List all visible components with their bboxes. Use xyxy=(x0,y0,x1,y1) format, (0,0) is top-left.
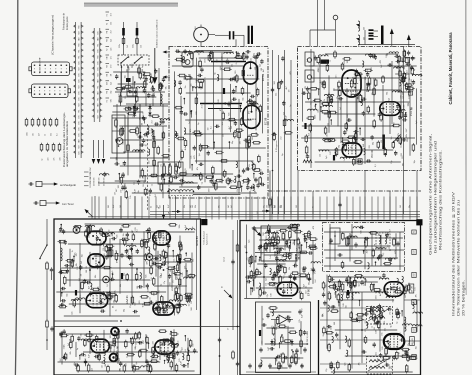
arrow alpha xyxy=(221,286,234,300)
svg-text:8p: 8p xyxy=(214,72,216,74)
svg-text:angaben in Widerständen: angaben in Widerständen xyxy=(66,120,69,167)
svg-text:3p3: 3p3 xyxy=(281,247,283,250)
svg-text:6k8: 6k8 xyxy=(213,130,215,133)
svg-text:2k2: 2k2 xyxy=(155,194,157,197)
svg-text:5p: 5p xyxy=(77,348,79,350)
svg-text:6k8: 6k8 xyxy=(225,102,227,105)
svg-text:8p: 8p xyxy=(85,354,87,356)
svg-text:47k: 47k xyxy=(401,88,403,91)
svg-text:125: 125 xyxy=(330,152,332,155)
svg-text:12k: 12k xyxy=(251,58,253,61)
svg-text:0,47: 0,47 xyxy=(320,58,322,62)
switch S1 (dashed box) xyxy=(118,55,149,65)
coil can L10 xyxy=(182,52,193,68)
svg-text:30p: 30p xyxy=(118,99,120,102)
svg-text:220: 220 xyxy=(365,329,367,332)
svg-text:27p: 27p xyxy=(337,96,339,99)
svg-text:1k: 1k xyxy=(401,146,403,148)
label PCL 86 a xyxy=(117,345,120,354)
svg-text:2n2: 2n2 xyxy=(151,358,153,361)
resistor R102 xyxy=(136,37,143,48)
svg-text:50u: 50u xyxy=(299,246,301,249)
tube PCL86 pentode b upper xyxy=(153,302,174,315)
svg-text:10n: 10n xyxy=(257,65,259,68)
svg-text:100n: 100n xyxy=(105,338,107,342)
boxed label EF183b xyxy=(410,337,415,346)
sound IF box (dash-dot) xyxy=(323,223,405,272)
svg-text:68k: 68k xyxy=(239,169,241,172)
trimmer switch xyxy=(393,135,401,143)
svg-text:EHN: EHN xyxy=(79,127,81,130)
divider wire 2 xyxy=(54,326,240,328)
svg-text:6k8: 6k8 xyxy=(228,205,230,208)
svg-text:27p: 27p xyxy=(255,178,257,181)
svg-text:12k: 12k xyxy=(289,267,291,270)
svg-text:3p3: 3p3 xyxy=(307,238,309,241)
svg-text:12k: 12k xyxy=(191,301,193,304)
filter coil 1 xyxy=(265,232,279,234)
svg-text:1n5: 1n5 xyxy=(151,277,153,280)
note tube sockets line 1 xyxy=(63,13,66,30)
svg-text:2k2: 2k2 xyxy=(60,358,62,361)
svg-text:33p: 33p xyxy=(74,362,76,365)
top mid extra parts xyxy=(113,64,167,103)
svg-text:220: 220 xyxy=(135,227,137,230)
ratio det parts xyxy=(259,307,306,364)
note chassis (rotated) xyxy=(52,15,55,55)
tube socket diagram upper xyxy=(29,62,72,76)
svg-text:190: 190 xyxy=(135,347,137,350)
harness arrow to chassis xyxy=(152,48,157,84)
svg-text:2k2: 2k2 xyxy=(174,338,176,341)
note UHF (rotated) xyxy=(39,57,42,74)
svg-text:8p: 8p xyxy=(299,291,301,293)
svg-text:3p3: 3p3 xyxy=(191,84,193,87)
svg-text:3p3: 3p3 xyxy=(181,347,183,350)
svg-text:47k: 47k xyxy=(281,364,283,367)
svg-text:47k: 47k xyxy=(403,92,405,95)
margin note voltages line 3 xyxy=(439,150,443,250)
svg-text:0,47: 0,47 xyxy=(301,364,303,368)
extra junction dots xyxy=(89,243,363,357)
svg-text:2p5: 2p5 xyxy=(220,66,222,69)
capacitor C40 xyxy=(50,267,53,272)
svg-text:1M: 1M xyxy=(237,76,239,79)
box B bottom interior wires xyxy=(341,47,404,215)
svg-text:3p3: 3p3 xyxy=(378,322,380,325)
svg-text:1k: 1k xyxy=(342,82,344,84)
svg-text:6k8: 6k8 xyxy=(284,360,286,363)
svg-text:8p: 8p xyxy=(328,92,330,94)
svg-text:470: 470 xyxy=(110,65,112,68)
box B extra parts xyxy=(305,49,416,167)
svg-text:68k: 68k xyxy=(102,361,104,364)
svg-text:12k: 12k xyxy=(280,205,282,208)
corner marker box C xyxy=(201,219,207,225)
label PCF 80 b xyxy=(371,149,374,158)
svg-text:EHN: EHN xyxy=(97,49,99,52)
svg-text:2p5: 2p5 xyxy=(272,326,274,329)
svg-text:5p: 5p xyxy=(227,58,229,60)
top scan bar xyxy=(84,3,178,7)
svg-text:4k7: 4k7 xyxy=(174,353,176,356)
svg-text:33p: 33p xyxy=(263,205,265,208)
svg-text:8p: 8p xyxy=(169,343,171,345)
svg-text:560: 560 xyxy=(110,99,112,102)
svg-text:1n5: 1n5 xyxy=(266,283,268,286)
svg-text:3p3: 3p3 xyxy=(388,98,390,101)
svg-text:0,47: 0,47 xyxy=(169,191,171,195)
left page edge line xyxy=(15,0,17,375)
tube socket diagram lower xyxy=(29,84,71,98)
svg-text:30p: 30p xyxy=(372,142,374,145)
svg-text:27p: 27p xyxy=(326,369,328,372)
svg-text:10n: 10n xyxy=(199,52,201,55)
svg-text:190: 190 xyxy=(143,90,145,93)
svg-text:0,47: 0,47 xyxy=(72,262,74,266)
svg-text:100n: 100n xyxy=(132,64,134,68)
svg-text:8p: 8p xyxy=(233,180,235,182)
svg-text:1k: 1k xyxy=(313,206,315,208)
svg-text:1n5: 1n5 xyxy=(153,355,155,358)
svg-text:220: 220 xyxy=(114,349,116,352)
harness horizontal wires xyxy=(88,212,420,217)
svg-text:0,1: 0,1 xyxy=(137,229,139,232)
svg-text:5p: 5p xyxy=(142,66,144,68)
svg-text:1M: 1M xyxy=(81,273,83,276)
svg-text:22k: 22k xyxy=(335,292,337,295)
svg-text:125: 125 xyxy=(160,164,162,167)
svg-text:190: 190 xyxy=(235,71,237,74)
svg-text:2n2: 2n2 xyxy=(63,346,65,349)
svg-text:1n5: 1n5 xyxy=(154,310,156,313)
svg-text:30p: 30p xyxy=(232,141,234,144)
svg-text:2p5: 2p5 xyxy=(248,240,250,243)
svg-text:3p3: 3p3 xyxy=(283,112,285,115)
svg-text:125: 125 xyxy=(257,90,259,93)
resistor R4 xyxy=(127,143,130,152)
tube EC88 V2 xyxy=(243,105,260,128)
tube PCF80 b xyxy=(342,143,362,157)
svg-text:K2: K2 xyxy=(107,100,109,102)
svg-text:220: 220 xyxy=(196,112,198,115)
svg-text:6k8: 6k8 xyxy=(361,231,363,234)
svg-text:2n2: 2n2 xyxy=(189,121,191,124)
svg-text:33p: 33p xyxy=(315,99,317,102)
ratio detector box xyxy=(256,302,311,373)
svg-text:27p: 27p xyxy=(299,319,301,322)
svg-text:2n2: 2n2 xyxy=(155,141,157,144)
svg-text:68k: 68k xyxy=(76,263,78,266)
wire xyxy=(47,271,52,320)
label 91 xyxy=(113,305,115,308)
svg-text:220: 220 xyxy=(371,67,373,70)
box D right extra parts xyxy=(322,273,417,374)
svg-text:30p: 30p xyxy=(256,108,258,111)
svg-text:2k2: 2k2 xyxy=(144,302,146,305)
svg-text:4k7: 4k7 xyxy=(367,250,369,253)
svg-text:470: 470 xyxy=(301,309,303,312)
label filter xyxy=(299,245,301,259)
svg-text:2n2: 2n2 xyxy=(181,248,183,251)
svg-text:100n: 100n xyxy=(166,310,168,314)
svg-text:EDN: EDN xyxy=(79,61,81,64)
svg-text:2k2: 2k2 xyxy=(311,268,313,271)
svg-text:2n2: 2n2 xyxy=(110,30,112,33)
svg-text:68k: 68k xyxy=(352,77,354,80)
svg-text:190: 190 xyxy=(125,183,127,186)
diode D1 xyxy=(133,104,136,111)
svg-text:47k: 47k xyxy=(190,129,192,132)
svg-text:3p3: 3p3 xyxy=(157,205,159,208)
svg-text:0,1: 0,1 xyxy=(107,284,109,287)
svg-text:3p3: 3p3 xyxy=(231,100,233,103)
margin note voltages line 1 xyxy=(429,134,433,255)
label ratio det xyxy=(307,331,309,345)
svg-text:47k: 47k xyxy=(116,260,118,263)
margin note voltages line 2 xyxy=(434,141,438,253)
svg-text:470: 470 xyxy=(209,189,211,192)
svg-text:560: 560 xyxy=(222,57,224,60)
svg-text:50u: 50u xyxy=(114,290,116,293)
divider wire xyxy=(54,320,118,322)
filter block xyxy=(119,88,162,104)
electrolytic capacitor C101 xyxy=(119,22,125,55)
svg-text:4k7: 4k7 xyxy=(185,147,187,150)
can K3 xyxy=(330,228,340,244)
svg-text:8p: 8p xyxy=(138,190,140,192)
svg-text:470: 470 xyxy=(391,259,393,262)
svg-text:5p: 5p xyxy=(374,244,376,246)
svg-text:220: 220 xyxy=(252,137,254,140)
svg-text:125: 125 xyxy=(77,267,79,270)
svg-text:FILTER 5,5 MHz: FILTER 5,5 MHz xyxy=(307,331,309,345)
svg-text:30p: 30p xyxy=(100,241,102,244)
svg-text:190: 190 xyxy=(133,336,135,339)
svg-text:12k: 12k xyxy=(134,182,136,185)
antenna arrow 2 xyxy=(407,35,411,48)
svg-text:2p5: 2p5 xyxy=(177,277,179,280)
svg-text:15n: 15n xyxy=(109,229,111,232)
svg-text:180: 180 xyxy=(347,60,349,63)
svg-text:27p: 27p xyxy=(130,305,132,308)
svg-text:0,47: 0,47 xyxy=(180,361,182,365)
svg-text:EC 86: EC 86 xyxy=(261,73,265,81)
svg-text:125: 125 xyxy=(179,359,181,362)
svg-text:EAA 91: EAA 91 xyxy=(125,295,129,304)
svg-text:68k: 68k xyxy=(192,259,194,262)
svg-text:0,47: 0,47 xyxy=(153,292,155,296)
svg-text:560: 560 xyxy=(217,59,219,62)
bus bar 1 xyxy=(211,61,246,63)
svg-text:8p: 8p xyxy=(282,154,284,156)
sound box wiring lower xyxy=(58,329,199,374)
svg-text:EC 88: EC 88 xyxy=(264,117,268,125)
svg-text:bei zurückgedrehtem Helligkeit: bei zurückgedrehtem Helligkeitsregler un… xyxy=(434,141,438,253)
svg-text:27p: 27p xyxy=(315,271,317,274)
svg-text:68k: 68k xyxy=(247,56,249,59)
svg-text:2p5: 2p5 xyxy=(151,128,153,131)
svg-text:100n: 100n xyxy=(404,104,406,108)
bus bar 3 xyxy=(208,108,242,110)
svg-text:250u: 250u xyxy=(133,44,135,48)
svg-text:22k: 22k xyxy=(195,205,197,208)
svg-text:EHN: EHN xyxy=(97,67,99,70)
UHF box interior wiring xyxy=(301,49,418,168)
svg-text:27p: 27p xyxy=(164,281,166,284)
svg-text:1k: 1k xyxy=(350,146,352,148)
svg-text:560: 560 xyxy=(274,81,276,84)
svg-text:8p: 8p xyxy=(329,242,331,244)
svg-text:5p: 5p xyxy=(369,110,371,112)
note entfaellt (rotated) xyxy=(155,19,158,48)
svg-text:12k: 12k xyxy=(76,253,78,256)
svg-text:EHN: EHN xyxy=(97,61,99,64)
svg-text:1n5: 1n5 xyxy=(270,256,272,259)
junction xyxy=(272,170,286,192)
svg-text:22k: 22k xyxy=(328,123,330,126)
UHF/IF box (dash-dot) xyxy=(298,47,422,171)
svg-text:22k: 22k xyxy=(103,248,105,251)
svg-text:190: 190 xyxy=(126,363,128,366)
svg-text:68k: 68k xyxy=(70,351,72,354)
svg-text:125: 125 xyxy=(161,275,163,278)
svg-text:Cabinet, Favorit, Maserati, Pa: Cabinet, Favorit, Maserati, Panorama xyxy=(448,32,453,105)
svg-text:Rückseite gesehen.: Rückseite gesehen. xyxy=(66,16,69,30)
svg-text:470: 470 xyxy=(180,190,182,193)
svg-text:2n2: 2n2 xyxy=(201,105,203,108)
resistor R20 xyxy=(283,118,286,127)
svg-text:68k: 68k xyxy=(267,249,269,252)
svg-text:1k: 1k xyxy=(262,253,264,255)
svg-text:3p3: 3p3 xyxy=(364,339,366,342)
svg-text:5p: 5p xyxy=(123,176,125,178)
box C right parts xyxy=(152,251,196,315)
svg-text:1M: 1M xyxy=(288,89,290,92)
svg-text:100n: 100n xyxy=(376,295,378,299)
svg-text:2n2: 2n2 xyxy=(113,356,115,359)
svg-text:1M: 1M xyxy=(115,192,117,195)
IF transformer lower xyxy=(367,357,393,375)
svg-text:2p5: 2p5 xyxy=(110,82,112,85)
pin label column xyxy=(106,12,113,102)
svg-text:4k7: 4k7 xyxy=(39,133,41,136)
svg-text:190: 190 xyxy=(259,248,261,251)
svg-text:190: 190 xyxy=(259,259,261,262)
svg-text:ka 0,4: ka 0,4 xyxy=(224,257,226,262)
svg-text:30p: 30p xyxy=(243,98,245,101)
svg-text:2p5: 2p5 xyxy=(199,153,201,156)
svg-text:560: 560 xyxy=(192,205,194,208)
capacitor C31 xyxy=(338,202,341,207)
svg-text:560: 560 xyxy=(191,307,193,310)
wire xyxy=(113,92,168,106)
pointer arrow xyxy=(168,210,181,215)
svg-text:47k: 47k xyxy=(142,168,144,171)
svg-text:100n: 100n xyxy=(386,53,388,57)
svg-text:PDL: PDL xyxy=(97,43,99,46)
svg-text:470: 470 xyxy=(194,156,196,159)
svg-text:33p: 33p xyxy=(254,53,256,56)
svg-text:12k: 12k xyxy=(299,357,301,360)
svg-text:190: 190 xyxy=(404,66,406,69)
wire xyxy=(110,104,168,158)
svg-text:5p: 5p xyxy=(263,318,265,320)
svg-text:1n5: 1n5 xyxy=(205,77,207,80)
svg-text:5p: 5p xyxy=(256,230,258,232)
right page edge line xyxy=(465,0,467,295)
svg-text:560: 560 xyxy=(148,161,150,164)
svg-text:10n: 10n xyxy=(123,233,125,236)
harness wires xyxy=(220,220,238,375)
svg-text:13 EM 106: 13 EM 106 xyxy=(104,178,106,186)
wire xyxy=(95,196,176,219)
svg-text:1k: 1k xyxy=(398,352,400,354)
svg-text:0,47: 0,47 xyxy=(168,205,170,208)
ratio det amp xyxy=(271,315,293,324)
wire xyxy=(122,65,140,92)
note wattage line 1 xyxy=(63,112,66,167)
pointer arrow a xyxy=(163,51,171,54)
svg-text:68k: 68k xyxy=(120,284,122,287)
coil L20 xyxy=(61,248,63,261)
svg-text:0,1: 0,1 xyxy=(211,126,213,129)
svg-text:190: 190 xyxy=(116,157,118,160)
video IF box xyxy=(240,221,421,376)
svg-text:2n2: 2n2 xyxy=(151,120,153,123)
svg-text:50u: 50u xyxy=(174,259,176,262)
svg-text:50u: 50u xyxy=(197,93,199,96)
margin note meter line 2 xyxy=(457,200,461,316)
svg-text:560: 560 xyxy=(373,249,375,252)
svg-text:560: 560 xyxy=(177,311,179,314)
svg-text:2k2: 2k2 xyxy=(334,305,336,308)
tube EF80 video xyxy=(277,282,298,296)
svg-text:2n2: 2n2 xyxy=(231,126,233,129)
note tube sockets line 2 xyxy=(66,16,69,30)
svg-text:3p3: 3p3 xyxy=(307,59,309,62)
boxed voltage label xyxy=(405,57,409,62)
svg-text:22k: 22k xyxy=(51,133,53,136)
resistor R8 xyxy=(170,175,173,184)
svg-text:12k: 12k xyxy=(237,80,239,83)
pointer arrow b xyxy=(163,76,171,79)
box C inner border line xyxy=(196,219,198,310)
svg-text:1n5: 1n5 xyxy=(226,171,228,174)
svg-text:EHN: EHN xyxy=(79,121,81,124)
svg-text:2k2: 2k2 xyxy=(386,361,388,364)
svg-text:180: 180 xyxy=(413,88,415,91)
margin note meter line 3 xyxy=(462,280,466,316)
svg-text:47k: 47k xyxy=(54,158,56,161)
svg-text:10n: 10n xyxy=(326,134,328,137)
svg-text:1k: 1k xyxy=(275,342,277,344)
svg-text:2n2: 2n2 xyxy=(173,280,175,283)
channel extra labels xyxy=(272,56,294,156)
svg-text:1M: 1M xyxy=(363,349,365,352)
svg-text:50u: 50u xyxy=(324,289,326,292)
svg-text:6k8: 6k8 xyxy=(308,133,310,136)
svg-text:1k: 1k xyxy=(402,64,404,66)
svg-text:560: 560 xyxy=(80,266,82,269)
svg-text:68k: 68k xyxy=(98,286,100,289)
svg-text:47k: 47k xyxy=(197,167,199,170)
svg-text:30p: 30p xyxy=(110,91,112,94)
boxed label EF183a xyxy=(409,284,414,293)
svg-text:8p: 8p xyxy=(393,287,395,289)
svg-text:6k8: 6k8 xyxy=(363,144,365,147)
svg-text:1n5: 1n5 xyxy=(118,253,120,256)
